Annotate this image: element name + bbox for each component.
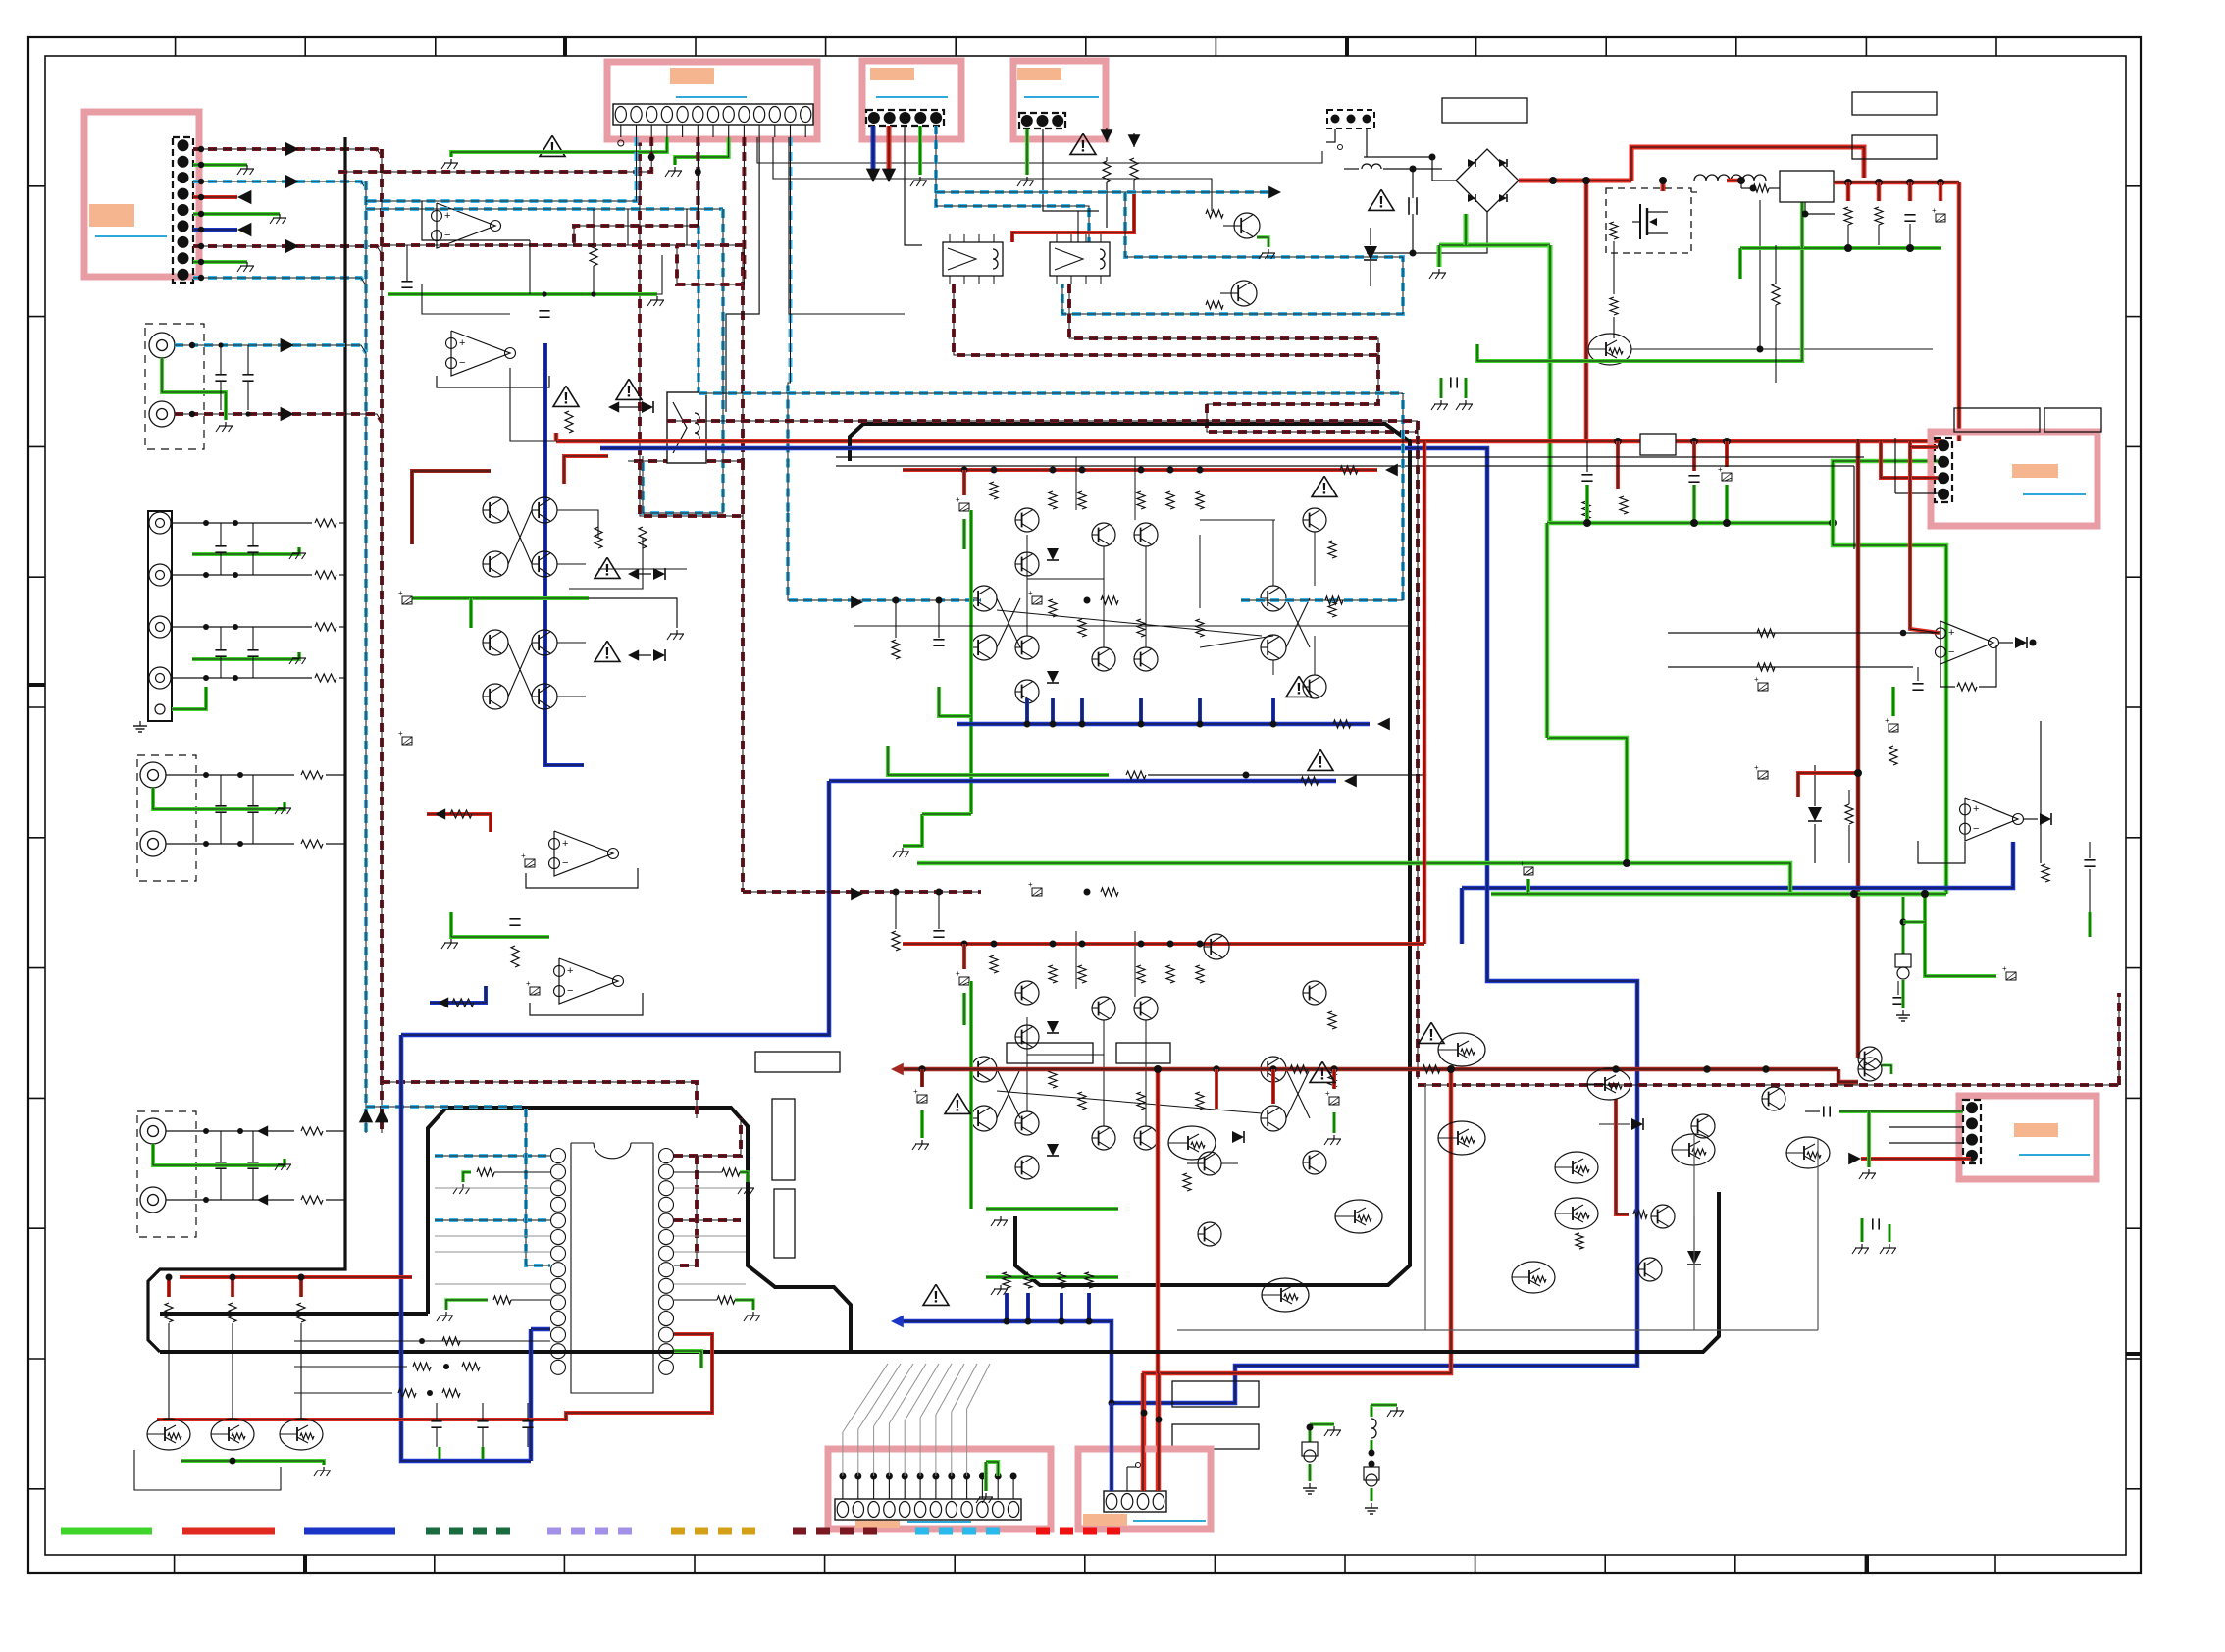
gray thin wires IC left <box>435 1187 550 1189</box>
thin wires CN201 to AC inlet area <box>757 137 1322 163</box>
ecaps right mid <box>1758 683 1768 691</box>
warning preamp <box>540 135 565 156</box>
ch2 transistor rows <box>1015 981 1039 1005</box>
green drop from y911 <box>1925 894 1996 976</box>
legend purple dashed <box>547 1528 639 1535</box>
green from bridge bottom <box>1439 243 1550 248</box>
cross-coupled transistor pair block A <box>483 497 508 523</box>
svg-text:+: + <box>1948 627 1954 639</box>
CN203 black drop <box>1043 129 1099 211</box>
inverter opamp U102 <box>451 331 510 376</box>
svg-text:+: + <box>562 838 568 850</box>
J102 row wires with resistors <box>172 522 294 524</box>
caps cluster RCA1 <box>215 374 226 376</box>
maroon input ch2 <box>743 890 981 894</box>
green ground wiring RCA pair1 <box>162 358 226 420</box>
green stub under 2130 <box>2088 912 2092 937</box>
svg-text:!: ! <box>1318 752 1323 771</box>
opamp pair mid-left U103 <box>554 831 613 876</box>
ch1 diodes <box>1047 548 1059 560</box>
svg-text:−: − <box>459 357 465 369</box>
cyan dashed loop preamp <box>366 207 723 211</box>
green links preamp blocks <box>412 596 589 600</box>
legend red dashed <box>1036 1528 1127 1535</box>
blue from U202 down <box>1462 842 2013 888</box>
warnings center ch1 <box>1286 676 1312 697</box>
thin rails top <box>836 456 1864 458</box>
svg-text:+: + <box>1325 1089 1330 1098</box>
border tick marks left/right <box>28 185 45 187</box>
CN202 blue drop <box>871 126 876 169</box>
diode arrows preamp <box>608 401 619 412</box>
CN201 label <box>670 68 714 84</box>
black bottom bus to right <box>160 1192 1719 1352</box>
green elbow to CN204 pin2 <box>1833 461 1938 523</box>
thin interconnects ch2 <box>1026 1017 1028 1111</box>
svg-text:!: ! <box>1428 1025 1434 1044</box>
green bottom ch1 bus <box>903 814 922 846</box>
bridge rectifier D201 <box>1456 149 1519 212</box>
legend cyan dashed <box>915 1528 1006 1535</box>
cyan top horizontal <box>699 391 1403 395</box>
thin lines into U201 <box>1668 632 1939 634</box>
svg-text:+: + <box>1885 716 1889 725</box>
red right vertical from top rail <box>1423 441 1427 944</box>
CN202 black drop <box>905 126 922 245</box>
caps RCA pair3 <box>215 1162 226 1163</box>
red lower rail2 <box>899 1067 1838 1072</box>
red inner bus ch2 <box>903 942 1424 946</box>
green pin stubs with ground <box>451 137 667 157</box>
wire maroon dashed from J101 pin1 <box>193 149 382 157</box>
thin black reg drop <box>1804 202 1806 214</box>
svg-text:!: ! <box>604 560 610 579</box>
green horizontal y911 <box>1491 892 1946 897</box>
svg-text:+: + <box>459 337 465 349</box>
green pin CN205 <box>986 1462 998 1476</box>
RCA input pair 2 dashed box <box>137 755 196 881</box>
CN203 warning and arrow <box>1070 133 1096 154</box>
relay RY1 box <box>943 242 1003 276</box>
legend dark green dashed <box>426 1528 516 1535</box>
red into U201 <box>1910 447 1940 633</box>
pink box CN207 lower right <box>1959 1096 2096 1179</box>
gray harness CN205 <box>842 1432 844 1476</box>
maroon horizontal right <box>1418 1083 2119 1087</box>
pink box CN202 <box>862 61 961 139</box>
red low rail y450 <box>556 439 1942 444</box>
black pin CN206 <box>1126 1467 1128 1491</box>
maroon dashed drops CN201 <box>338 137 651 172</box>
cyan dashed drops CN201 <box>366 137 637 201</box>
green bus J102 lower <box>192 652 299 659</box>
green bus RCA pair3 <box>153 1144 285 1165</box>
svg-text:+: + <box>1754 675 1759 684</box>
svg-text:!: ! <box>563 388 569 407</box>
thick black amp block outline <box>850 424 1410 1285</box>
caps RCA pair2 <box>215 805 226 807</box>
CB101 label <box>89 204 134 227</box>
thin feedback wire Q201 <box>1631 348 1933 350</box>
svg-text:!: ! <box>626 382 632 400</box>
rail taps red <box>1614 438 1622 445</box>
ch1 cross pair <box>971 586 997 611</box>
CN204 red wires <box>1910 441 1938 447</box>
preamp passives <box>590 244 597 266</box>
green bridge drop extension <box>1545 523 1550 738</box>
RCA pair3 wires <box>166 1130 294 1132</box>
pink box CN206 bottom <box>1078 1449 1211 1529</box>
wire maroon from RCA2 <box>175 414 382 422</box>
ch2 rail taps <box>961 941 968 948</box>
green bus under IC <box>438 1447 441 1459</box>
wire cyan from RCA1 <box>175 345 366 353</box>
svg-text:!: ! <box>933 1287 939 1306</box>
smps fet dashed box <box>1606 188 1691 253</box>
maroon elbow from bus <box>382 1082 697 1118</box>
white label rects top right corner <box>1852 92 1937 115</box>
cyan elbow from bus <box>366 1107 526 1156</box>
legend gold dashed <box>671 1528 760 1535</box>
relay RY2 box <box>1050 242 1110 276</box>
CN203 green drop <box>1025 129 1029 175</box>
red from bridge right <box>1519 179 1631 183</box>
smps transformer <box>1694 175 1730 181</box>
warning psu <box>1369 189 1394 210</box>
blue U bottom <box>401 1035 531 1461</box>
green vertical ch1 <box>969 510 973 814</box>
blue into IC <box>531 1327 550 1332</box>
red long vertical main right <box>1856 439 1861 1058</box>
cap under red drop <box>1581 474 1592 476</box>
CN205 connector row <box>835 1499 1021 1520</box>
svg-text:+: + <box>1754 763 1759 772</box>
blue inner bus ch2 <box>899 1321 1112 1403</box>
black arrow and res above red <box>1128 134 1141 147</box>
maroon drop from CN201 pin3 <box>640 137 743 516</box>
RCA pair2 wires <box>166 774 294 776</box>
fuse <box>1344 168 1359 170</box>
green bus RCA pair2 <box>153 788 285 809</box>
svg-text:+: + <box>398 589 403 597</box>
wire green pin5 <box>193 212 280 216</box>
blue feed to U104 <box>430 986 486 1003</box>
main cyan dashed bus vertical <box>364 181 368 1133</box>
ch1 transistor rows <box>1015 508 1039 532</box>
legend blue <box>304 1528 395 1535</box>
output big transistors <box>1168 1126 1216 1160</box>
pink box CN204 right <box>1931 432 2097 526</box>
resistor below arrow <box>1103 161 1111 182</box>
AC inlet dashed connector <box>1327 110 1374 129</box>
wire green pin2 <box>193 163 247 167</box>
ch2 left ecap+green <box>962 944 966 969</box>
CN206 connector row <box>1104 1491 1166 1512</box>
cyan drop from CN201 pin6 <box>697 137 700 393</box>
maroon dashed loop preamp <box>382 245 743 461</box>
blue inner bus ch1 <box>957 722 1370 727</box>
green vertical ch2 <box>969 981 973 1209</box>
reg white box <box>1780 171 1834 202</box>
CN201 connector row <box>613 104 813 125</box>
green stub U201 <box>1891 687 1895 716</box>
bridge input wire <box>1364 157 1456 181</box>
CN207 dashed connector <box>1963 1100 1981 1163</box>
bottom left transistor trio <box>147 1419 190 1450</box>
IC pins left <box>551 1149 566 1163</box>
red loop top <box>1631 147 1864 181</box>
blue left drop <box>401 781 829 1035</box>
red comb bus bottom left <box>180 1275 412 1279</box>
maroon dashed IC wires <box>674 1118 741 1156</box>
AC wiring <box>1326 129 1335 142</box>
svg-text:+: + <box>526 979 531 988</box>
cyan dashed IC wires <box>435 1154 550 1158</box>
opamp U104 <box>559 958 618 1004</box>
green bus J102 upper <box>192 547 299 554</box>
IC pins right <box>659 1149 674 1163</box>
svg-text:!: ! <box>1296 679 1302 697</box>
small network bottom right of U202 <box>2042 864 2049 882</box>
red feed relay <box>1012 191 1134 242</box>
CN202 cyan drop <box>936 126 1089 257</box>
red rail after reg <box>1834 181 1959 185</box>
green wire psu mid <box>1477 200 1802 361</box>
green stub relay <box>1257 237 1268 247</box>
red pins CN206 <box>1141 1373 1146 1491</box>
CN205 pin wires <box>842 1476 844 1499</box>
green emitter buses ch2 <box>986 1207 1118 1211</box>
maroon top horizontal <box>667 419 1418 423</box>
transistor pair right of relays <box>1234 213 1260 238</box>
connector J101 dashed <box>173 137 193 283</box>
main black bus vertical <box>148 137 345 1352</box>
black wires relay to bridge <box>1043 210 1078 212</box>
warning bottom <box>923 1284 949 1305</box>
input connector block J102 <box>148 511 172 721</box>
X-cap <box>1408 197 1410 215</box>
res to reg <box>1753 184 1769 192</box>
green y911 right <box>1528 892 1946 897</box>
blue vert down left to ch2 <box>1460 888 1465 944</box>
svg-text:!: ! <box>1319 1064 1325 1083</box>
antenna components bottom <box>1308 1424 1312 1442</box>
caps J102 <box>215 545 226 547</box>
svg-text:−: − <box>1973 823 1979 835</box>
maroon bundle down to ch2 input <box>741 461 745 892</box>
pink box CN203 <box>1013 61 1106 139</box>
green stub J102 bottom <box>172 687 206 709</box>
red long vertical right <box>1957 182 1962 441</box>
green rail under reg <box>1740 246 1941 250</box>
red inner bus ch1 <box>903 468 1377 472</box>
thin interconnects ch1 right <box>1272 520 1274 586</box>
balanced driver transformer box <box>667 392 706 463</box>
svg-text:+: + <box>398 729 403 738</box>
diode arrows B <box>628 568 639 579</box>
CN201 pin stubs <box>620 125 622 137</box>
border tick marks top/bottom <box>175 37 177 56</box>
res divider below <box>1772 284 1780 305</box>
svg-text:+: + <box>956 969 960 978</box>
thick black IC block outline <box>428 1108 851 1352</box>
svg-text:−: − <box>1948 646 1954 658</box>
thin interconnects ch1 <box>854 625 1410 627</box>
red drop x1479 <box>1144 1069 1451 1491</box>
driver stage right of center cluster <box>1198 1152 1221 1175</box>
svg-text:+: + <box>567 965 573 977</box>
caps under IC <box>431 1420 441 1422</box>
diode zener right <box>1808 807 1822 821</box>
red drop to low rail <box>1584 181 1589 441</box>
res+green stubs IC right <box>722 1168 740 1176</box>
ch2 resistors <box>990 955 998 973</box>
relay pins <box>949 234 951 242</box>
opamp comparator U201 <box>1940 621 1993 664</box>
blue mid arrow bus <box>829 779 1336 784</box>
caps near opamps <box>509 918 520 920</box>
wire maroon dashed pin7 <box>193 246 382 254</box>
svg-text:−: − <box>444 230 450 241</box>
green bus bottom left trio <box>181 1461 324 1465</box>
wire red pin4 <box>193 195 237 199</box>
svg-text:+: + <box>956 495 960 504</box>
black drops CN201 <box>726 137 759 412</box>
CN204 black wire <box>1894 438 1896 493</box>
warnings center ch2 <box>1419 1022 1444 1043</box>
legend maroon dashed <box>793 1528 882 1535</box>
black return wire trio <box>134 1450 281 1490</box>
reg2 white box on rail <box>1640 434 1676 455</box>
green long vertical right <box>1833 523 1946 894</box>
arrow up stubs <box>648 154 655 161</box>
red stub right mid <box>1798 773 1858 797</box>
svg-text:+: + <box>1028 589 1033 597</box>
U202 wiring <box>1918 841 1965 863</box>
red elbow right cluster <box>1616 1099 1629 1214</box>
red out of IC right <box>157 1334 712 1420</box>
fet symbol <box>1639 204 1641 239</box>
green vertical through CN207 wires <box>1867 1111 1871 1167</box>
blue wire opamp out <box>545 343 584 765</box>
res chain under fet <box>1582 501 1590 519</box>
green caps pair mid right <box>1439 378 1443 398</box>
transistors lower right <box>1587 1068 1630 1100</box>
green long drop from bridge <box>1548 245 1553 523</box>
rail2 taps <box>918 1065 925 1072</box>
wire blue pin6 <box>193 228 237 232</box>
right low driver cluster <box>1555 1152 1598 1183</box>
ch1 rail taps <box>961 467 968 474</box>
white label rects center <box>755 1052 840 1072</box>
green bus y533 <box>1547 521 1833 526</box>
cyan input ch1 <box>788 513 981 600</box>
green sensor component right <box>1901 897 1905 954</box>
wire cyan dashed pin9 <box>193 278 366 285</box>
feedback res U201 <box>1957 683 1977 691</box>
opamp comparator U202 <box>1965 798 2018 841</box>
svg-text:+: + <box>1028 880 1033 889</box>
wire green pin8 <box>193 260 247 264</box>
diode out U201 <box>2015 637 2027 648</box>
RCA input pair 3 dashed box <box>137 1111 196 1237</box>
gray outline verticals right cluster <box>1424 1084 1426 1330</box>
green caps pair bottom right <box>1860 1218 1864 1242</box>
optocoupler Q201 <box>1588 334 1631 365</box>
svg-text:−: − <box>567 985 573 997</box>
inductor right <box>1731 175 1766 181</box>
cyan dashed web around relays <box>936 190 1273 194</box>
label white box <box>1442 98 1527 123</box>
CN204 dashed connector <box>1935 438 1952 502</box>
ch1 left ecap+green <box>962 470 966 495</box>
ch1 resistors <box>990 482 998 499</box>
svg-text:−: − <box>562 857 568 869</box>
connector block CB101 pink box <box>84 112 199 277</box>
green bus mid-left <box>451 912 549 937</box>
green bus preamp <box>388 292 657 296</box>
svg-text:+: + <box>444 210 450 222</box>
blue pin CN206 <box>1110 1403 1114 1491</box>
main connector CN201 pink box <box>607 62 817 139</box>
svg-text:!: ! <box>1378 192 1384 211</box>
CN202 green drop <box>918 126 922 175</box>
maroon right vertical <box>1416 421 1420 1079</box>
red feed to U103 <box>427 814 491 832</box>
legend red <box>182 1528 275 1535</box>
svg-text:+: + <box>1973 803 1979 815</box>
svg-text:!: ! <box>1321 479 1327 497</box>
preamp thin wiring texture <box>422 284 510 314</box>
red to smps <box>1661 181 1666 191</box>
CN202 red drop <box>887 126 892 169</box>
main maroon dashed bus vertical <box>380 149 384 1133</box>
res chain under cyan <box>892 640 900 659</box>
label boxes above CN204 <box>1954 408 2040 432</box>
maroon dashed web relays <box>954 284 1378 355</box>
svg-text:!: ! <box>604 644 610 662</box>
inverter opamp U101 <box>422 201 530 240</box>
maroon red path into block <box>412 471 491 544</box>
green out of IC right <box>674 1351 701 1368</box>
svg-text:+: + <box>1932 206 1937 215</box>
red right top rail <box>1727 179 1741 183</box>
blue bus top <box>600 448 1637 1403</box>
IC body <box>571 1143 653 1393</box>
wire cyan dashed pin3 <box>193 181 366 189</box>
svg-text:+: + <box>2002 964 2007 973</box>
cyan cluster segment ch1 <box>1241 393 1403 600</box>
cross-coupled transistor pair block B <box>483 630 508 655</box>
pink box CN205 bottom <box>828 1449 1051 1529</box>
svg-text:!: ! <box>549 138 555 157</box>
legend green <box>61 1528 152 1535</box>
CN207 wires <box>1839 1110 1963 1113</box>
red drop x1180 <box>1156 1069 1161 1491</box>
resistor rows under IC <box>294 1340 550 1342</box>
resistor ladder A <box>595 527 602 548</box>
green long bottom ch1 <box>917 863 1790 894</box>
res+green stubs IC left <box>477 1168 494 1176</box>
CN203 dashed connector <box>1019 113 1065 129</box>
diode column right <box>1687 1251 1701 1265</box>
cyan maroon taps mid <box>402 596 412 604</box>
green wire feedback ch1 <box>888 746 1109 775</box>
RCA input pair 1 dashed box <box>145 324 204 449</box>
svg-text:!: ! <box>1080 136 1086 155</box>
svg-text:!: ! <box>955 1096 960 1114</box>
caps near output <box>1892 997 1903 999</box>
